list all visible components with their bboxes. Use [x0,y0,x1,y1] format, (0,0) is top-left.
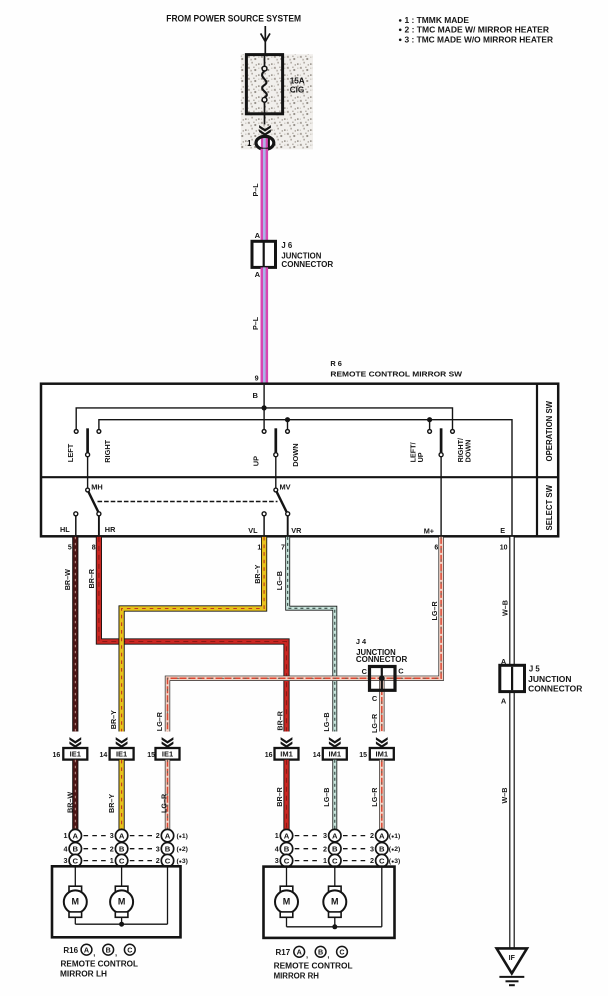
wire: feed from power source [264,26,266,69]
lever LEFT-RIGHT [86,428,90,456]
wire BR-R (HR to IM1 16) [99,537,287,732]
bus line 1 [76,408,452,430]
svg-text:UP: UP [251,456,260,466]
svg-text:IE1: IE1 [116,750,127,759]
wire LG-B (VR to IM1 14) [288,537,335,732]
svg-text:2: 2 [156,856,160,865]
label REMOTE CONTROL MIRROR RH [274,962,353,981]
mechanical link (dashed) [98,501,278,503]
remote control mirror LH R16 box [52,866,181,937]
motor M2 [110,867,133,924]
svg-text:B: B [318,948,323,957]
wire to MH [87,457,89,489]
svg-text:3: 3 [156,844,160,853]
wire BR-W (HL to IE1 16) [72,537,78,732]
svg-text:LG–B: LG–B [322,712,331,731]
svg-text:2: 2 [110,844,114,853]
svg-text:SELECT SW: SELECT SW [545,484,554,530]
wire LG-R (M+ via J4) [168,537,442,732]
svg-text:1: 1 [64,831,68,840]
svg-text:6: 6 [434,544,438,551]
svg-text:IE1: IE1 [70,750,81,759]
svg-text:C: C [398,667,404,676]
arrow into IE1 pin 16 [69,737,81,748]
svg-text:BR–R: BR–R [276,710,285,730]
wire LG-R (J4 to IM1 15) [379,679,384,732]
label column divider [536,384,538,537]
svg-text:HL: HL [60,525,70,534]
svg-text:C: C [165,856,171,865]
label J6 [281,241,333,269]
svg-text:LG–R: LG–R [370,787,379,807]
contact RIGHT/DOWN [451,430,455,434]
arrow into connector [259,125,271,136]
svg-text:REMOTE CONTROL: REMOTE CONTROL [274,962,353,971]
svg-text:IM1: IM1 [376,750,389,759]
svg-text:CONNECTOR: CONNECTOR [528,685,582,694]
connector IE1 [63,748,87,760]
motor common bus [75,867,167,924]
svg-text:MV: MV [280,482,291,491]
svg-text:C: C [284,856,290,865]
junction connector J6 [252,241,276,267]
connector IM1 [275,748,299,760]
svg-text:M: M [283,896,291,906]
svg-text:3: 3 [275,856,279,865]
svg-text:4: 4 [275,844,279,853]
svg-text:3: 3 [110,831,114,840]
svg-text:MH: MH [91,482,103,491]
legend note 3 [399,35,553,44]
svg-text:1: 1 [275,831,279,840]
svg-text:(●1): (●1) [389,833,400,840]
svg-text:7: 7 [281,544,285,551]
remote control mirror RH R17 box [264,867,395,938]
svg-text:FROM POWER SOURCE SYSTEM: FROM POWER SOURCE SYSTEM [166,13,301,24]
svg-text:P–L: P–L [251,316,260,330]
ground IF [497,948,527,985]
contact LEFT/UP [428,430,432,434]
svg-text:M+: M+ [424,526,434,535]
connector IM1 [323,748,347,760]
svg-text:1: 1 [247,139,252,148]
svg-text:LG–R: LG–R [155,711,164,731]
arrow into IM1 pin 14 [329,737,341,748]
svg-text:A: A [297,948,302,957]
motor M1 [64,867,87,924]
svg-text:A: A [332,831,338,840]
svg-text:2: 2 [370,831,374,840]
svg-text:B: B [284,844,290,853]
label RIGHT/ DOWN [456,438,472,462]
label REMOTE CONTROL MIRROR LH [60,959,138,978]
svg-text:B: B [379,844,385,853]
contact UP [262,430,266,434]
svg-text:CONNECTOR: CONNECTOR [356,655,408,664]
svg-text:BR–R: BR–R [87,568,96,588]
connector 1 (oval) [256,136,274,149]
node: LEFT/UP tap [427,417,432,430]
svg-text:15A: 15A [290,76,305,85]
junction connector J5 [500,665,525,691]
svg-text:C: C [119,856,125,865]
svg-text:C: C [332,856,338,865]
svg-text:IM1: IM1 [280,750,293,759]
svg-text:C: C [127,945,132,954]
select switch MV [274,488,287,512]
contact VR [286,512,290,535]
svg-text:,: , [327,951,329,960]
svg-text:,: , [306,951,308,960]
svg-text:MIRROR RH: MIRROR RH [274,972,320,981]
svg-text:,: , [115,948,117,957]
svg-text:2 : TMC MADE W/ MIRROR HEATER: 2 : TMC MADE W/ MIRROR HEATER [405,25,550,34]
motor M2 [323,867,346,927]
node: motor bus junction [119,922,124,927]
motor common bus [287,867,382,927]
arrow into IM1 pin 16 [281,737,293,748]
svg-text:3: 3 [370,844,374,853]
svg-text:MIRROR LH: MIRROR LH [60,969,107,978]
motor M1 [275,867,298,927]
svg-text:W–B: W–B [500,788,509,804]
open arrowhead [261,33,270,41]
svg-text:14: 14 [313,752,321,759]
svg-text:14: 14 [100,752,108,759]
fuse element [262,55,267,125]
contact DOWN [286,430,290,434]
svg-text:VL: VL [248,526,258,535]
connector IE1 [156,748,180,760]
svg-text:HR: HR [105,525,116,534]
svg-text:16: 16 [265,752,273,759]
svg-text:R16: R16 [63,946,78,955]
svg-text:(●2): (●2) [177,846,188,853]
svg-text:A: A [501,697,507,706]
contact VL [262,512,266,535]
svg-text:LG–R: LG–R [159,793,168,813]
svg-text:3: 3 [64,856,68,865]
svg-text:IF: IF [509,955,516,962]
arrow into IM1 pin 15 [376,737,388,748]
svg-text:A: A [379,831,385,840]
svg-text:BR–Y: BR–Y [109,710,118,729]
svg-text:15: 15 [147,752,155,759]
svg-text:8: 8 [92,544,96,551]
svg-text:1: 1 [110,856,114,865]
svg-text:IM1: IM1 [329,750,342,759]
wire BR-W (to R16 A) [72,760,78,830]
junction connector J4 [370,667,396,691]
svg-text:REMOTE CONTROL: REMOTE CONTROL [61,959,139,968]
svg-text:IE1: IE1 [162,750,173,759]
svg-text:2: 2 [156,831,160,840]
svg-text:(●3): (●3) [177,858,188,865]
svg-text:VR: VR [291,526,302,535]
svg-text:A: A [284,831,290,840]
select switch MH [86,488,99,512]
svg-text:10: 10 [500,544,508,551]
wire LG-R (to R17 C) [379,760,384,830]
svg-text:LEFT: LEFT [66,443,75,462]
svg-text:B: B [253,391,259,400]
R16 connector pins [64,829,188,866]
R17 connector pins [275,829,401,866]
label R16 A,B,C [63,944,135,957]
wire LG-R (to R16 C) [165,760,170,830]
svg-text:W–B: W–B [500,600,509,616]
label R6 [330,359,462,378]
wire W-B (E to ground) [509,537,515,948]
node: B junction [262,405,267,410]
svg-text:REMOTE CONTROL MIRROR SW: REMOTE CONTROL MIRROR SW [330,369,462,378]
svg-text:(●1): (●1) [177,833,188,840]
svg-text:UP: UP [416,452,425,462]
bus line 2 + E line [99,420,512,536]
label J5 [528,664,582,693]
svg-text:B: B [119,844,125,853]
node: DOWN tap [285,417,290,430]
svg-text:R17: R17 [276,948,291,957]
svg-text:C: C [362,667,368,676]
wire BR-Y (VL to IE1 14) [122,537,265,732]
node: motor bus junction [332,924,337,929]
svg-text:LG–B: LG–B [322,788,331,807]
svg-text:(●2): (●2) [389,846,400,853]
svg-text:B: B [332,844,338,853]
connector IM1 [370,748,394,760]
contact HR [97,512,101,535]
svg-text:A: A [165,831,171,840]
wire M+ through select section [440,457,442,536]
label LEFT/ UP [408,442,424,462]
legend note 1 [399,16,470,25]
svg-text:9: 9 [255,373,259,382]
wire BR-R (to R17 A) [283,760,289,830]
node: J4 junction [379,675,385,681]
svg-text:1: 1 [257,544,261,551]
lever UP-DOWN [274,428,278,456]
lever LEFT/UP-RIGHT/DOWN [439,428,443,456]
svg-text:BR–Y: BR–Y [107,794,116,813]
svg-text:15: 15 [359,752,367,759]
svg-text:2: 2 [323,844,327,853]
svg-text:RIGHT: RIGHT [103,439,112,462]
svg-text:E: E [500,526,505,535]
svg-text:C: C [339,948,344,957]
wire P-L (lower) [260,267,268,384]
svg-text:J 4: J 4 [356,637,367,646]
svg-text:,: , [93,948,95,957]
svg-text:16: 16 [53,752,61,759]
svg-text:5: 5 [68,544,72,551]
remote control mirror switch R6 box [41,384,558,537]
svg-text:2: 2 [370,856,374,865]
label J4 [356,637,408,664]
svg-text:3 : TMC MADE W/O MIRROR HEATER: 3 : TMC MADE W/O MIRROR HEATER [405,35,554,44]
arrow into IE1 pin 14 [116,737,128,748]
svg-text:J 6: J 6 [281,241,293,250]
svg-text:R 6: R 6 [330,359,342,368]
svg-text:1: 1 [323,856,327,865]
svg-text:CIG: CIG [290,85,305,94]
wire LG-B (to R17 B) [332,760,337,830]
svg-text:A: A [73,831,79,840]
wire P-L (upper) [260,149,268,242]
svg-text:A: A [119,831,125,840]
svg-text:DOWN: DOWN [464,440,473,463]
svg-text:A: A [255,231,261,240]
wire BR-Y (to R16 B) [118,760,124,830]
svg-text:C: C [379,856,385,865]
svg-text:A: A [84,945,89,954]
svg-text:3: 3 [323,831,327,840]
svg-text:CONNECTOR: CONNECTOR [281,260,333,269]
fuse 15A CIG box [246,55,282,114]
fuse value label 15A CIG [290,76,305,94]
svg-text:4: 4 [64,844,68,853]
svg-text:LG–B: LG–B [275,571,284,590]
contact HL [74,512,78,535]
arrow into IE1 pin 15 [162,737,174,748]
svg-text:B: B [165,844,171,853]
svg-text:BR–Y: BR–Y [253,564,262,583]
wire: B drop to bus [263,385,265,430]
svg-text:1 : TMMK MADE: 1 : TMMK MADE [405,16,470,25]
svg-text:JUNCTION: JUNCTION [528,675,572,684]
svg-text:(●3): (●3) [389,858,400,865]
svg-text:J 5: J 5 [529,664,541,673]
svg-text:BR–R: BR–R [275,786,284,806]
svg-text:P–L: P–L [251,183,260,197]
connector IE1 [110,748,134,760]
legend note 2 [399,25,549,34]
svg-text:B: B [106,945,111,954]
section divider [41,476,558,478]
svg-text:BR–W: BR–W [65,792,74,813]
svg-text:A: A [255,270,261,279]
svg-text:C: C [372,694,378,703]
svg-text:C: C [73,856,79,865]
svg-text:LG–R: LG–R [430,601,439,621]
halftone shading patch [241,54,313,149]
label R17 A,B,C [276,946,348,959]
svg-text:OPERATION SW: OPERATION SW [545,400,554,461]
contact LEFT [74,430,78,434]
svg-text:B: B [73,844,79,853]
svg-text:BR–W: BR–W [63,569,72,590]
svg-text:DOWN: DOWN [291,443,300,466]
svg-text:M: M [118,896,126,906]
svg-text:M: M [331,896,339,906]
svg-text:M: M [72,896,80,906]
svg-text:LG–R: LG–R [370,713,379,733]
contact RIGHT [97,430,101,434]
wire to MV [275,457,277,489]
